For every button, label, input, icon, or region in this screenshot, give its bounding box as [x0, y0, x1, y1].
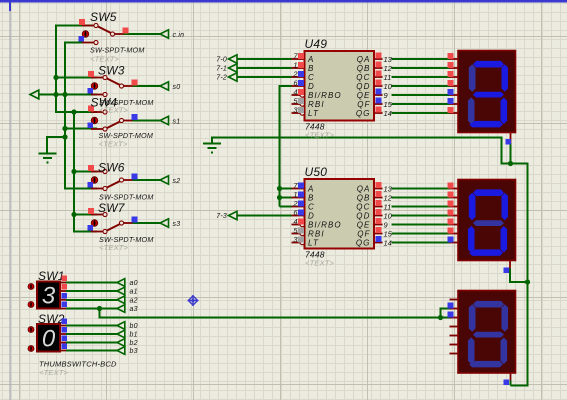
svg-text:A: A: [307, 55, 314, 64]
svg-text:QD: QD: [356, 212, 370, 221]
svg-text:a2: a2: [130, 297, 138, 304]
svg-text:4: 4: [293, 217, 297, 226]
svg-text:14: 14: [384, 109, 392, 118]
svg-text:QD: QD: [356, 82, 370, 91]
svg-text:C: C: [308, 203, 315, 212]
svg-text:<TEXT>: <TEXT>: [99, 106, 129, 115]
svg-text:<TEXT>: <TEXT>: [39, 368, 69, 377]
svg-text:A: A: [307, 185, 314, 194]
svg-text:SW-SPDT-MOM: SW-SPDT-MOM: [90, 46, 145, 55]
svg-text:14: 14: [384, 238, 392, 247]
svg-text:0: 0: [42, 325, 56, 352]
svg-text:LT: LT: [308, 239, 319, 248]
svg-text:U49: U49: [305, 37, 328, 51]
svg-text:10: 10: [384, 82, 393, 91]
svg-text:<TEXT>: <TEXT>: [90, 55, 120, 64]
svg-text:QB: QB: [357, 64, 371, 73]
svg-text:LT: LT: [308, 109, 319, 118]
svg-text:SW1: SW1: [38, 269, 65, 283]
svg-text:a0: a0: [130, 280, 138, 287]
svg-text:7-2: 7-2: [216, 75, 227, 82]
svg-text:c.in: c.in: [173, 32, 185, 39]
svg-text:RBI: RBI: [308, 100, 325, 109]
svg-text:15: 15: [384, 229, 393, 238]
svg-text:s3: s3: [173, 221, 181, 228]
svg-text:B: B: [308, 64, 314, 73]
svg-text:3: 3: [42, 283, 56, 310]
svg-text:B: B: [308, 194, 314, 203]
svg-text:4: 4: [293, 88, 297, 97]
svg-text:SW-SPDT-MOM: SW-SPDT-MOM: [99, 193, 154, 202]
svg-text:QE: QE: [357, 91, 371, 100]
svg-text:11: 11: [384, 73, 392, 82]
svg-text:s2: s2: [173, 178, 181, 185]
svg-text:1: 1: [293, 190, 297, 199]
svg-text:SW2: SW2: [38, 312, 65, 326]
svg-text:QA: QA: [357, 185, 371, 194]
svg-text:D: D: [308, 212, 315, 221]
svg-text:13: 13: [384, 184, 393, 193]
svg-text:<TEXT>: <TEXT>: [305, 131, 335, 140]
svg-text:QG: QG: [356, 239, 371, 248]
svg-text:1: 1: [293, 61, 297, 70]
svg-text:10: 10: [384, 211, 393, 220]
svg-text:7-3: 7-3: [216, 213, 227, 220]
svg-text:2: 2: [292, 70, 298, 79]
svg-text:13: 13: [384, 55, 393, 64]
svg-text:BI/RBO: BI/RBO: [308, 221, 342, 230]
svg-text:<TEXT>: <TEXT>: [99, 243, 129, 252]
svg-text:b3: b3: [130, 348, 138, 355]
svg-text:RBI: RBI: [308, 230, 325, 239]
svg-text:a3: a3: [130, 306, 138, 313]
svg-text:7-0: 7-0: [216, 57, 227, 64]
svg-text:<TEXT>: <TEXT>: [99, 140, 129, 149]
svg-text:D: D: [308, 82, 315, 91]
svg-text:11: 11: [384, 202, 392, 211]
svg-text:SW3: SW3: [98, 64, 125, 78]
svg-text:12: 12: [384, 193, 393, 202]
svg-text:QA: QA: [357, 55, 371, 64]
svg-text:QB: QB: [357, 194, 371, 203]
svg-text:SW5: SW5: [90, 10, 117, 24]
svg-text:U50: U50: [305, 165, 328, 179]
svg-text:12: 12: [384, 64, 393, 73]
svg-text:<TEXT>: <TEXT>: [305, 259, 335, 268]
svg-text:15: 15: [384, 100, 393, 109]
svg-text:SW6: SW6: [98, 161, 125, 175]
svg-text:QC: QC: [356, 203, 370, 212]
svg-text:b2: b2: [130, 340, 138, 347]
svg-text:b1: b1: [130, 332, 138, 339]
svg-text:s0: s0: [173, 84, 181, 91]
svg-text:QC: QC: [356, 73, 370, 82]
svg-text:7-1: 7-1: [216, 66, 227, 73]
svg-text:C: C: [308, 73, 315, 82]
svg-text:QG: QG: [356, 109, 371, 118]
svg-text:QE: QE: [357, 221, 371, 230]
svg-text:QF: QF: [357, 100, 370, 109]
svg-text:a1: a1: [130, 289, 138, 296]
svg-text:QF: QF: [357, 230, 370, 239]
svg-text:b0: b0: [130, 323, 138, 330]
svg-text:BI/RBO: BI/RBO: [308, 91, 342, 100]
svg-text:2: 2: [292, 199, 298, 208]
svg-text:SW7: SW7: [98, 201, 126, 215]
svg-text:s1: s1: [173, 118, 181, 125]
